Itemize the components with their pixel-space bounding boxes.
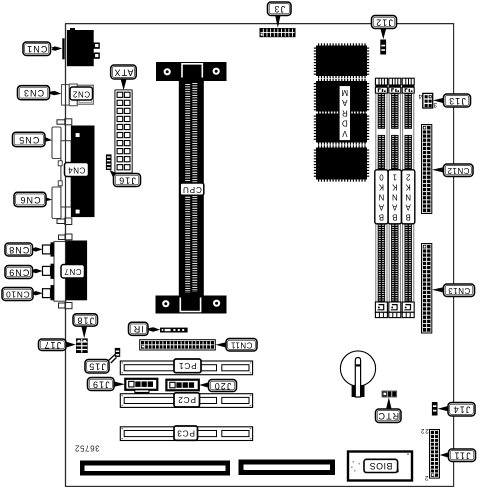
leader J14	[438, 406, 449, 412]
svg-text:J17: J17	[43, 340, 61, 350]
label CN6	[14, 192, 46, 206]
svg-text:N: N	[379, 193, 385, 202]
svg-text:RTC: RTC	[377, 411, 399, 421]
label J15	[85, 360, 109, 374]
svg-text:M: M	[341, 88, 348, 97]
battery	[340, 351, 375, 397]
label J20	[209, 380, 237, 392]
wire board top edge	[66, 23, 454, 25]
svg-text:B: B	[406, 213, 411, 222]
svg-text:J15: J15	[88, 362, 106, 372]
label CN3	[18, 86, 50, 100]
leader CN5	[45, 137, 52, 141]
svg-text:PC2: PC2	[178, 395, 196, 405]
leader J18	[81, 326, 87, 338]
connector J14	[432, 402, 438, 416]
label ATX	[111, 65, 137, 79]
svg-text:K: K	[405, 183, 411, 192]
svg-text:CN8: CN8	[8, 245, 29, 255]
svg-text:J14: J14	[453, 405, 471, 415]
jack CN9	[43, 266, 51, 275]
mount tab above CN4	[57, 119, 72, 125]
label J12	[372, 16, 397, 29]
connector J20	[166, 380, 198, 391]
leader CN9	[33, 269, 43, 273]
mount tab below CN4	[57, 218, 72, 225]
leader CN3	[49, 91, 61, 95]
connector CN7 block	[51, 241, 88, 302]
memory slot BANK1	[389, 78, 401, 317]
leader J13	[433, 98, 444, 104]
connector J11	[430, 430, 440, 479]
label CN13	[444, 284, 475, 297]
svg-text:BIOS: BIOS	[369, 461, 392, 471]
svg-text:D: D	[342, 119, 348, 128]
svg-text:CN10: CN10	[5, 289, 29, 299]
label J18	[73, 314, 98, 326]
jack CN8	[43, 245, 51, 254]
connector J17/J18	[76, 338, 88, 353]
leader CN8	[33, 247, 43, 251]
connector J16	[106, 154, 112, 170]
label J11	[449, 449, 476, 462]
svg-text:CN13: CN13	[448, 286, 471, 295]
svg-text:A: A	[391, 203, 397, 212]
label PC1	[174, 359, 201, 373]
memory slot BANK0	[375, 78, 387, 317]
label CN11	[226, 339, 257, 352]
label CN10	[2, 288, 33, 301]
leader J17	[66, 342, 76, 348]
svg-text:2: 2	[406, 173, 410, 182]
label J14	[448, 403, 475, 417]
svg-text:K: K	[391, 183, 397, 192]
leader CN11	[216, 342, 227, 348]
label J3	[268, 2, 292, 16]
svg-text:N: N	[392, 193, 398, 202]
connector CN11	[140, 340, 216, 350]
connector J12	[380, 40, 386, 55]
CPU slot bottom bracket	[156, 296, 227, 314]
leader CN10	[33, 291, 43, 295]
svg-text:PC3: PC3	[177, 428, 195, 438]
chip VDRAM 4	[314, 145, 369, 181]
label BANK0	[375, 170, 388, 224]
svg-text:2: 2	[420, 427, 424, 434]
connector J19	[125, 379, 157, 394]
label PC3	[174, 426, 198, 440]
svg-text:PC1: PC1	[178, 361, 196, 371]
svg-text:A: A	[378, 203, 384, 212]
svg-text:CN9: CN9	[8, 267, 29, 277]
svg-text:A: A	[341, 98, 347, 107]
connector CN6 dsub	[52, 187, 61, 219]
leader J15	[109, 355, 117, 364]
svg-text:CPU: CPU	[182, 185, 202, 194]
connector CN1 body	[62, 28, 100, 66]
connector CN13	[422, 244, 432, 334]
svg-text:CN2: CN2	[72, 89, 90, 98]
svg-text:K: K	[378, 183, 384, 192]
svg-text:J13: J13	[448, 96, 466, 106]
slot PC3	[120, 427, 252, 441]
slot PC1	[120, 361, 252, 375]
label BIOS	[364, 459, 399, 472]
leader J12	[380, 28, 386, 39]
board outline	[66, 24, 454, 487]
connector J3	[260, 28, 296, 37]
connector CN12	[422, 125, 432, 214]
label IR	[129, 322, 149, 335]
connector J15	[115, 348, 120, 357]
label CN1	[23, 42, 51, 56]
svg-text:CN3: CN3	[23, 88, 44, 98]
chip VDRAM 2	[314, 79, 369, 114]
chip VDRAM 3	[314, 111, 369, 144]
svg-text:N: N	[405, 193, 411, 202]
svg-text:R: R	[342, 108, 348, 117]
label CN4	[65, 163, 89, 177]
svg-text:4: 4	[418, 92, 422, 99]
label CN5	[13, 132, 46, 146]
label J19	[88, 378, 115, 391]
label PC2	[174, 393, 200, 407]
label BANK1	[388, 170, 401, 224]
label RTC	[376, 409, 402, 423]
svg-text:J12: J12	[375, 17, 393, 27]
slot PC2	[120, 394, 252, 408]
label CN8	[5, 243, 33, 256]
leader IR	[148, 327, 160, 331]
leader J16	[110, 170, 118, 178]
leader J20	[199, 382, 209, 388]
connector J13	[423, 93, 433, 108]
svg-text:A: A	[405, 203, 411, 212]
label J17	[39, 339, 67, 351]
leader J19	[114, 381, 125, 387]
leader CN12	[432, 167, 444, 173]
leader J11	[440, 452, 449, 458]
BIOS chip	[348, 452, 412, 481]
svg-text:36752: 36752	[74, 444, 99, 453]
label VDRAM	[339, 86, 351, 141]
svg-text:3: 3	[433, 101, 437, 108]
svg-text:V: V	[341, 129, 347, 138]
svg-text:ATX: ATX	[113, 67, 133, 77]
ISA slot bar 2	[239, 460, 336, 476]
mount tab above CN7	[59, 234, 73, 240]
svg-text:B: B	[379, 213, 384, 222]
svg-text:CN1: CN1	[26, 44, 47, 54]
chip VDRAM 1	[314, 43, 369, 78]
label CN7	[61, 265, 85, 279]
svg-text:CN11: CN11	[231, 341, 253, 350]
label BANK2	[402, 170, 415, 224]
label J16	[114, 174, 141, 187]
leader ATX	[121, 79, 127, 90]
memory slot BANK2	[402, 78, 414, 317]
svg-text:CN7: CN7	[64, 267, 82, 276]
connector ATX	[115, 90, 132, 173]
svg-text:J3: J3	[273, 4, 285, 14]
svg-text:2: 2	[424, 474, 428, 481]
leader CN1	[50, 46, 62, 50]
connector IR	[160, 328, 188, 333]
svg-text:CN12: CN12	[447, 166, 470, 175]
svg-text:1: 1	[393, 173, 397, 182]
svg-text:0: 0	[379, 173, 384, 182]
mount tab below CN7	[59, 303, 73, 309]
jack CN10	[43, 289, 51, 298]
label CN9	[5, 266, 33, 279]
leader CN6	[45, 197, 52, 201]
label CPU	[180, 183, 204, 195]
leader CN13	[432, 287, 444, 293]
leader RTC	[386, 397, 392, 409]
svg-text:J18: J18	[76, 315, 94, 325]
wire board left edge	[65, 24, 67, 487]
CPU slot top bracket	[156, 62, 227, 81]
svg-text:J19: J19	[92, 379, 110, 389]
label J13	[444, 94, 471, 107]
connector CN4 stack	[58, 126, 94, 218]
ISA slot bar 1	[80, 461, 230, 476]
svg-text:J20: J20	[214, 381, 232, 391]
svg-text:CN5: CN5	[18, 135, 39, 145]
svg-text:CN4: CN4	[68, 165, 86, 174]
svg-text:2: 2	[425, 427, 429, 434]
label CN12	[444, 164, 474, 177]
connector CN2/CN3	[62, 84, 94, 106]
svg-text:CN6: CN6	[19, 195, 40, 205]
svg-text:B: B	[392, 213, 397, 222]
svg-text:J11: J11	[453, 451, 470, 461]
svg-text:J16: J16	[118, 175, 136, 185]
label CN2	[70, 87, 93, 100]
connector CN5 dsub	[52, 127, 61, 159]
leader J3	[275, 15, 281, 27]
CPU slot body	[179, 81, 204, 296]
connector RTC	[382, 391, 397, 397]
svg-text:IR: IR	[133, 324, 144, 334]
